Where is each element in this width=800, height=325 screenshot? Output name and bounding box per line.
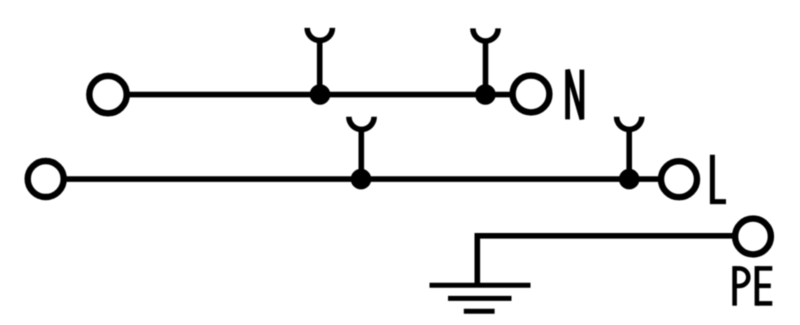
wire tap stem 3 (L)	[358, 129, 364, 180]
wire tap stem 2 (N)	[483, 40, 489, 95]
plug-in tap socket 2 (N)	[473, 28, 498, 41]
label PE: letter E	[757, 266, 772, 306]
ground bar 1 (top, widest)	[430, 283, 531, 288]
node L2 (junction dot)	[622, 172, 637, 187]
terminal circle PE	[735, 219, 771, 255]
terminal circle L (right end of L bus)	[661, 161, 697, 197]
terminal circle X2 (mid-left, L feed-through)	[28, 161, 64, 197]
label L	[712, 155, 726, 202]
node N1 (junction dot)	[313, 87, 328, 102]
label N	[568, 70, 582, 120]
node N2 (junction dot)	[478, 87, 493, 102]
wire L bus	[64, 176, 660, 182]
plug-in tap socket 3 (L)	[349, 117, 374, 130]
ground bar 3 (bottom, shortest)	[464, 309, 495, 314]
plug-in tap socket 1 (N)	[307, 28, 332, 41]
wire PE horizontal	[477, 233, 735, 239]
terminal circle N (right end of N bus)	[513, 76, 550, 113]
wire tap stem 4 (L)	[626, 129, 632, 180]
terminal circle X1 (top-left, N feed-through)	[89, 76, 126, 113]
plug-in tap socket 4 (L)	[617, 117, 642, 130]
ground bar 2 (middle)	[448, 296, 512, 301]
label PE: letter P	[735, 266, 749, 306]
wire tap stem 1 (N)	[317, 40, 323, 95]
node L1 (junction dot)	[354, 172, 369, 187]
wire PE vertical drop	[474, 233, 480, 285]
wire N bus	[129, 92, 511, 98]
